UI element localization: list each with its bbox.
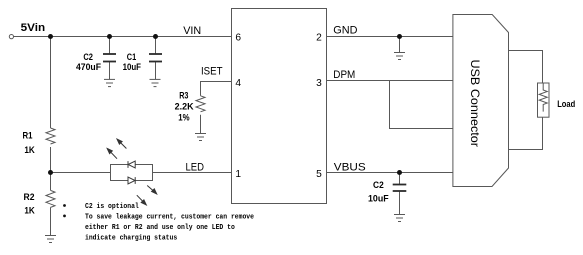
wire R3 to ground (200, 115, 202, 134)
LED D1 emission arrows (107, 139, 126, 159)
LED D1 top diode pointing left (128, 161, 135, 168)
svg-text:5Vin: 5Vin (21, 22, 45, 34)
svg-text:4: 4 (235, 78, 241, 89)
ground below output C2 (394, 215, 405, 222)
svg-text:VBUS: VBUS (334, 161, 366, 173)
wire LED pair to pin 1 (153, 172, 232, 174)
junction dot GND/ground (397, 34, 402, 39)
load resistor element (539, 83, 547, 112)
svg-text:1: 1 (235, 169, 241, 180)
svg-text:To save leakage current, custo: To save leakage current, customer can re… (85, 213, 254, 221)
wire 5Vin to VIN pin 6 (14, 36, 232, 38)
load resistor box (538, 83, 550, 117)
note bullet 2 (63, 215, 66, 218)
wire VBUS to load top (509, 51, 543, 84)
junction dot R1/R2/LED (48, 170, 53, 175)
svg-text:VIN: VIN (183, 25, 201, 37)
LED D2 emission arrows (137, 186, 157, 205)
svg-text:indicate charging status: indicate charging status (85, 235, 177, 243)
svg-text:1K: 1K (24, 205, 35, 215)
capacitor C2 output lead bottom (399, 191, 401, 215)
ground below C2 (104, 79, 115, 86)
capacitor C2 input lead top (109, 37, 111, 55)
svg-text:R1: R1 (23, 130, 33, 140)
ground below C1 (150, 79, 161, 86)
wire VBUS pin 5 (327, 172, 453, 174)
capacitor C1 lead top (155, 37, 157, 55)
IC U1 bq2057 (232, 9, 327, 204)
USB connector body (453, 15, 509, 187)
svg-text:C2: C2 (83, 52, 93, 62)
wire GND ground stub (399, 37, 401, 53)
svg-text:ISET: ISET (201, 65, 223, 77)
LED pair frame (111, 165, 153, 181)
LED D2 bottom diode pointing right (128, 177, 135, 184)
svg-text:Load: Load (557, 99, 575, 109)
capacitor C2 output plates (393, 185, 407, 192)
svg-text:LED: LED (186, 161, 205, 173)
svg-text:3: 3 (316, 78, 322, 89)
junction dot VBUS/C2 (397, 170, 402, 175)
wire DPM to D- entry (390, 81, 453, 129)
svg-text:GND: GND (333, 25, 357, 37)
svg-text:10uF: 10uF (368, 194, 389, 204)
capacitor C1 lead bottom (155, 62, 157, 80)
junction dot VIN/C2 (107, 34, 112, 39)
capacitor C1 plates (149, 54, 162, 62)
svg-text:R3: R3 (179, 91, 188, 101)
wire R1 branch vertical (50, 37, 52, 129)
resistor R2 (46, 190, 55, 207)
svg-text:USB Connector: USB Connector (468, 59, 482, 147)
junction dot VIN/R1 (48, 34, 53, 39)
wire R2 to ground (50, 207, 52, 235)
capacitor C2 input lead bottom (109, 62, 111, 80)
svg-text:10uF: 10uF (123, 62, 142, 72)
capacitor C2 output lead top (399, 173, 401, 185)
svg-text:C2: C2 (373, 180, 384, 190)
svg-text:C2 is optional: C2 is optional (85, 203, 139, 211)
wire load return (509, 117, 543, 149)
resistor R1 (46, 128, 55, 144)
capacitor C2 input plates (103, 54, 116, 62)
wire R1 to LED node (50, 147, 52, 190)
svg-text:1K: 1K (24, 145, 35, 155)
svg-text:6: 6 (235, 33, 241, 44)
svg-text:5: 5 (316, 169, 322, 180)
wire LED node to LED pair (51, 172, 111, 174)
svg-text:470uF: 470uF (76, 62, 101, 72)
svg-text:either R1 or R2 and use only o: either R1 or R2 and use only one LED to (85, 224, 235, 232)
ground below R3 (195, 134, 206, 141)
svg-text:DPM: DPM (333, 69, 355, 81)
svg-text:1%: 1% (178, 112, 189, 122)
svg-text:C1: C1 (127, 52, 136, 62)
junction dot VIN/C1 (153, 34, 158, 39)
wire DPM pin 3 (327, 80, 453, 82)
ground below R2 (45, 236, 56, 243)
svg-text:R2: R2 (24, 192, 35, 202)
wire ISET pin 4 (201, 82, 232, 96)
svg-text:2.2K: 2.2K (175, 101, 194, 111)
ground at GND net (394, 53, 405, 60)
node 5Vin input terminal (9, 35, 13, 39)
wire GND pin 2 (327, 36, 453, 38)
resistor R3 (196, 96, 205, 112)
note bullet 1 (63, 204, 66, 207)
svg-text:2: 2 (316, 33, 322, 44)
